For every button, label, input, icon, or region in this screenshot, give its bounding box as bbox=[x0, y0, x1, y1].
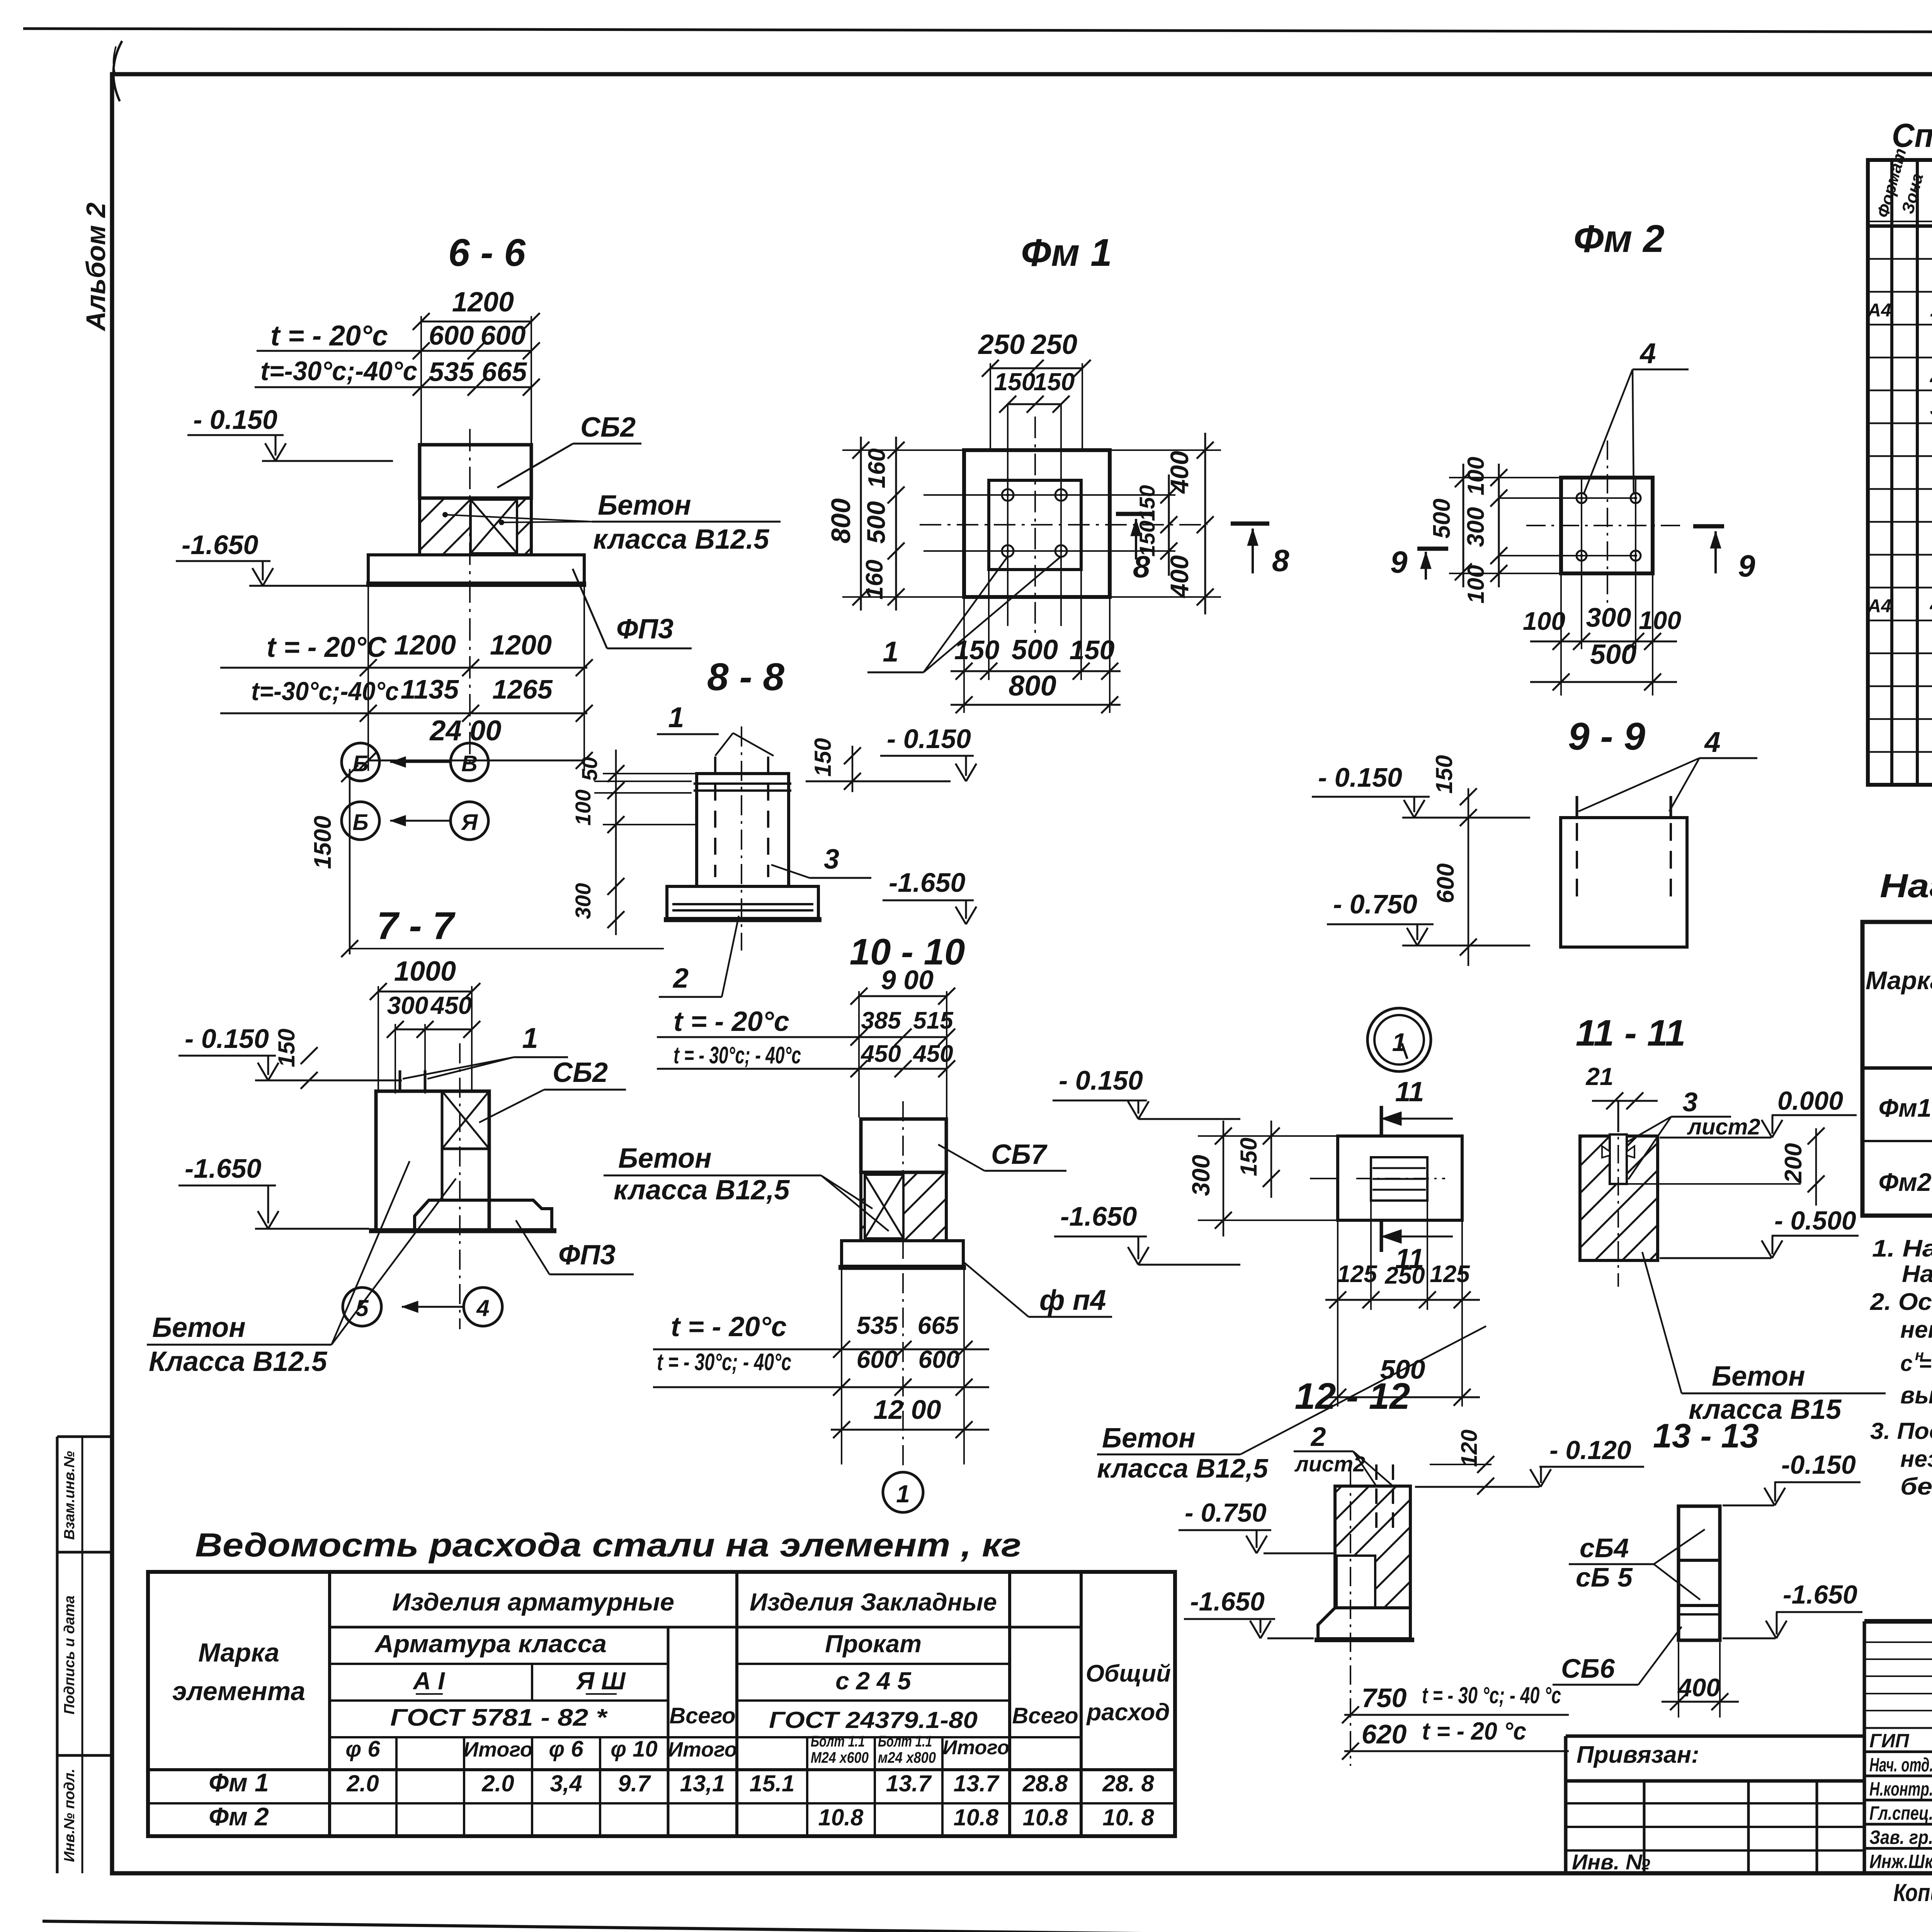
svg-text:Фм 1: Фм 1 bbox=[209, 1768, 269, 1797]
svg-text:ФП3: ФП3 bbox=[616, 614, 673, 645]
6-6 block SB2 bbox=[420, 445, 531, 498]
svg-text:А I: А I bbox=[412, 1667, 445, 1695]
svg-text:12 00: 12 00 bbox=[873, 1395, 941, 1425]
svg-text:Привязан:: Привязан: bbox=[1577, 1742, 1699, 1768]
svg-text:10.8: 10.8 bbox=[954, 1804, 999, 1830]
svg-text:1: 1 bbox=[896, 1480, 910, 1508]
svg-text:Гл.спец.: Гл.спец. bbox=[1869, 1803, 1932, 1824]
section cut 11 bottom bbox=[1380, 1221, 1383, 1252]
svg-text:Изделия арматурные: Изделия арматурные bbox=[392, 1588, 674, 1616]
svg-text:3: 3 bbox=[1930, 395, 1932, 420]
svg-text:4: 4 bbox=[1639, 337, 1656, 369]
7-7 axis circles 5 4 bbox=[343, 1287, 381, 1326]
top-left scan artifact curl bbox=[113, 41, 122, 101]
svg-text:Взам.инв.№: Взам.инв.№ bbox=[61, 1451, 78, 1540]
svg-text:160: 160 bbox=[864, 448, 890, 488]
svg-text:Фм1: Фм1 bbox=[1878, 1094, 1931, 1122]
svg-text:150: 150 bbox=[954, 635, 1000, 665]
title block outer bbox=[1564, 1736, 1568, 1873]
vedomost grid bbox=[148, 1572, 1175, 1836]
svg-text:Копировал: Коннова: Копировал: Коннова bbox=[1893, 1879, 1932, 1906]
svg-text:300: 300 bbox=[1187, 1155, 1215, 1196]
svg-text:9: 9 bbox=[1390, 545, 1408, 579]
6-6 hatched band with cross bbox=[420, 498, 531, 555]
svg-text:0.000: 0.000 bbox=[1777, 1086, 1843, 1116]
svg-text:250: 250 bbox=[1384, 1262, 1425, 1289]
svg-text:t=-30°c;-40°c: t=-30°c;-40°c bbox=[260, 356, 417, 386]
svg-text:100: 100 bbox=[1523, 607, 1565, 635]
svg-text:Бетон: Бетон bbox=[152, 1312, 246, 1343]
svg-text:3: 3 bbox=[1683, 1087, 1698, 1117]
svg-text:класса В12,5: класса В12,5 bbox=[614, 1175, 790, 1206]
svg-text:ГОСТ 24379.1-80: ГОСТ 24379.1-80 bbox=[769, 1707, 978, 1733]
svg-text:ФП3: ФП3 bbox=[558, 1240, 616, 1270]
svg-text:28.8: 28.8 bbox=[1022, 1770, 1068, 1796]
svg-text:1200: 1200 bbox=[394, 630, 456, 661]
svg-text:- 0.150: - 0.150 bbox=[193, 405, 277, 435]
svg-text:сБ 5: сБ 5 bbox=[1576, 1562, 1633, 1592]
svg-text:500: 500 bbox=[1012, 634, 1058, 665]
svg-text:9.7: 9.7 bbox=[618, 1770, 651, 1796]
svg-text:1. Нагрузка на фундамент: 1. Нагрузка на фундамент пилястры - 400 … bbox=[1872, 1235, 1932, 1262]
svg-text:t = - 30°c; - 40°c: t = - 30°c; - 40°c bbox=[673, 1042, 801, 1069]
left margin boxes bbox=[56, 1437, 59, 1873]
svg-text:сБ4: сБ4 bbox=[1580, 1533, 1629, 1563]
svg-text:t = - 30°c; - 40°c: t = - 30°c; - 40°c bbox=[657, 1349, 791, 1376]
7-7 footing trapezoid bbox=[415, 1200, 552, 1231]
svg-text:СБ6: СБ6 bbox=[1561, 1653, 1615, 1684]
svg-text:-1.650: -1.650 bbox=[1190, 1587, 1265, 1616]
svg-text:15.1: 15.1 bbox=[750, 1770, 795, 1796]
svg-text:- 0.150: - 0.150 bbox=[1318, 762, 1402, 793]
svg-text:750: 750 bbox=[1362, 1683, 1407, 1713]
svg-text:М24 х600: М24 х600 bbox=[811, 1749, 869, 1766]
svg-text:Нагрузка на ленточный фу: Нагрузка на ленточный фундамент - 99 к Н… bbox=[1902, 1261, 1932, 1287]
svg-text:Ведомость расхода стали: Ведомость расхода стали на элемент , кг bbox=[195, 1527, 1021, 1564]
svg-text:4: 4 bbox=[1930, 592, 1932, 617]
10-10 base slab bbox=[842, 1241, 963, 1266]
11-11 slot bbox=[1610, 1134, 1627, 1184]
svg-text:100: 100 bbox=[1639, 606, 1681, 634]
svg-text:Фм 2: Фм 2 bbox=[1573, 217, 1664, 260]
svg-text:Зав. гр.: Зав. гр. bbox=[1869, 1827, 1932, 1848]
svg-text:-1.650: -1.650 bbox=[889, 867, 966, 898]
9-9 body bbox=[1561, 818, 1687, 947]
svg-text:11 - 11: 11 - 11 bbox=[1576, 1012, 1686, 1054]
svg-text:2. Основанием фундаментов: 2. Основанием фундаментов служат грунты … bbox=[1870, 1289, 1932, 1315]
svg-text:ГИП: ГИП bbox=[1869, 1730, 1910, 1752]
7-7 center line bbox=[459, 1043, 461, 1329]
svg-text:лист2: лист2 bbox=[1687, 1114, 1760, 1139]
8-8 mesh lines top bbox=[694, 782, 791, 785]
strip plan grate bbox=[1371, 1157, 1427, 1201]
7-7 body bbox=[376, 1091, 489, 1231]
svg-text:В: В bbox=[461, 751, 478, 776]
svg-text:600: 600 bbox=[918, 1345, 960, 1373]
svg-text:класса В12.5: класса В12.5 bbox=[593, 524, 769, 555]
svg-text:150: 150 bbox=[274, 1029, 299, 1067]
svg-text:Бетон: Бетон bbox=[618, 1143, 712, 1174]
Fm2 center lines bbox=[1607, 440, 1608, 607]
6-6 axis circles B A bbox=[342, 802, 379, 840]
svg-text:3,4: 3,4 bbox=[550, 1770, 582, 1796]
svg-text:8: 8 bbox=[1272, 543, 1289, 578]
svg-text:Инв.№ подл.: Инв.№ подл. bbox=[61, 1769, 78, 1862]
Fm2 square bbox=[1561, 478, 1653, 573]
svg-text:2.0: 2.0 bbox=[346, 1770, 379, 1796]
8-8 base bbox=[667, 886, 818, 918]
10-10 axis circle 1 bbox=[883, 1472, 923, 1512]
svg-text:600: 600 bbox=[429, 320, 474, 350]
8-8 bolts dashed bbox=[714, 757, 716, 877]
svg-text:φ 6: φ 6 bbox=[345, 1736, 380, 1762]
Fm1 bolt axis lines bbox=[1008, 494, 1175, 496]
svg-text:100: 100 bbox=[1463, 565, 1489, 604]
paper top edge line bbox=[23, 29, 1932, 33]
svg-text:ГОСТ 5781 - 82 *: ГОСТ 5781 - 82 * bbox=[390, 1704, 608, 1731]
13-13 column bbox=[1679, 1506, 1720, 1640]
10-10 hatched band bbox=[861, 1172, 946, 1241]
svg-text:2.0: 2.0 bbox=[481, 1770, 514, 1796]
svg-text:Итого: Итого bbox=[463, 1738, 533, 1761]
Fm2 bolt axis lines bbox=[1499, 497, 1636, 499]
10-10 top block SB7 bbox=[861, 1119, 946, 1172]
12-12 bolts bbox=[1375, 1464, 1378, 1530]
svg-text:- 0.750: - 0.750 bbox=[1185, 1498, 1267, 1527]
svg-text:1265: 1265 bbox=[492, 674, 553, 704]
svg-text:535: 535 bbox=[429, 357, 474, 387]
svg-text:10.8: 10.8 bbox=[1023, 1804, 1068, 1830]
svg-text:10.8: 10.8 bbox=[818, 1804, 864, 1830]
12-12 slot white bbox=[1337, 1556, 1375, 1608]
7-7 inner pier with cross bbox=[442, 1091, 489, 1149]
svg-text:665: 665 bbox=[482, 357, 527, 387]
svg-text:Болт 1.1: Болт 1.1 bbox=[878, 1733, 932, 1750]
svg-text:1: 1 bbox=[522, 1022, 538, 1054]
svg-text:Арматура класса: Арматура класса bbox=[374, 1630, 607, 1658]
9-9 bolts bbox=[1576, 796, 1578, 818]
svg-text:3: 3 bbox=[824, 844, 839, 875]
svg-text:t = - 20°c: t = - 20°c bbox=[671, 1311, 787, 1342]
svg-text:300: 300 bbox=[1586, 602, 1631, 633]
svg-text:Я Ш: Я Ш bbox=[575, 1667, 626, 1695]
svg-text:Бетон: Бетон bbox=[1712, 1361, 1805, 1392]
svg-text:150: 150 bbox=[994, 368, 1036, 396]
svg-text:1000: 1000 bbox=[394, 956, 456, 987]
svg-text:450: 450 bbox=[860, 1041, 901, 1067]
svg-text:9: 9 bbox=[1738, 549, 1755, 583]
svg-text:150: 150 bbox=[1431, 755, 1457, 794]
svg-text:2: 2 bbox=[1930, 362, 1932, 387]
svg-text:φ 10: φ 10 bbox=[611, 1736, 657, 1762]
svg-text:120: 120 bbox=[1457, 1430, 1482, 1467]
svg-text:А4: А4 bbox=[1867, 596, 1891, 617]
strip plan rect bbox=[1338, 1136, 1462, 1220]
svg-text:28. 8: 28. 8 bbox=[1102, 1770, 1154, 1796]
svg-text:600: 600 bbox=[481, 320, 526, 350]
Fm1 bolts bbox=[1002, 489, 1014, 501]
Fm2 section mark 9 right bbox=[1693, 524, 1724, 529]
svg-text:600: 600 bbox=[857, 1345, 898, 1373]
Fm1 section mark 8 left bbox=[1116, 512, 1155, 516]
svg-text:5: 5 bbox=[355, 1295, 369, 1321]
6-6 center line bbox=[469, 429, 471, 771]
svg-text:450: 450 bbox=[912, 1041, 953, 1067]
svg-text:расход: расход bbox=[1086, 1699, 1170, 1726]
section cut 11 top bbox=[1380, 1106, 1383, 1136]
svg-text:Бетон: Бетон bbox=[1102, 1423, 1196, 1454]
svg-text:φ 6: φ 6 bbox=[549, 1736, 583, 1762]
svg-text:Бетон: Бетон bbox=[598, 490, 691, 521]
svg-text:СБ2: СБ2 bbox=[553, 1057, 608, 1088]
svg-text:500: 500 bbox=[1429, 498, 1455, 538]
svg-text:150: 150 bbox=[1034, 368, 1075, 396]
svg-text:450: 450 bbox=[430, 992, 472, 1019]
svg-text:Всего: Всего bbox=[669, 1703, 735, 1728]
svg-text:4: 4 bbox=[476, 1295, 489, 1321]
svg-text:500: 500 bbox=[862, 501, 890, 544]
svg-text:Итого: Итого bbox=[668, 1738, 737, 1761]
svg-text:бетона класса В 3.5 толщ: бетона класса В 3.5 толщиной 100 мм. bbox=[1900, 1473, 1932, 1500]
svg-text:t=-30°c;-40°c: t=-30°c;-40°c bbox=[251, 677, 399, 706]
svg-text:100: 100 bbox=[571, 789, 595, 825]
privyazan mini table bbox=[1566, 1802, 1864, 1804]
svg-text:11: 11 bbox=[1395, 1077, 1424, 1107]
Fm1 inner square bbox=[989, 480, 1081, 570]
svg-text:- 0.150: - 0.150 bbox=[887, 724, 971, 754]
svg-text:300: 300 bbox=[387, 992, 429, 1019]
svg-text:665: 665 bbox=[918, 1311, 959, 1339]
svg-text:t = - 20°c: t = - 20°c bbox=[270, 320, 388, 352]
svg-text:1: 1 bbox=[883, 636, 898, 668]
svg-text:515: 515 bbox=[913, 1007, 954, 1034]
Fm1 center lines bbox=[1034, 417, 1036, 634]
svg-text:Всего: Всего bbox=[1012, 1703, 1078, 1728]
svg-text:Я: Я bbox=[461, 810, 478, 835]
svg-text:-1.650: -1.650 bbox=[1060, 1201, 1137, 1231]
svg-text:м24 х800: м24 х800 bbox=[878, 1749, 936, 1766]
svg-text:элемента: элемента bbox=[172, 1677, 305, 1706]
svg-text:Класса В12.5: Класса В12.5 bbox=[149, 1346, 327, 1377]
svg-text:250: 250 bbox=[978, 329, 1025, 360]
svg-text:300: 300 bbox=[1463, 507, 1489, 547]
svg-text:t = - 30 °c; - 40 °c: t = - 30 °c; - 40 °c bbox=[1422, 1682, 1561, 1708]
svg-text:800: 800 bbox=[826, 498, 856, 544]
svg-text:лист2: лист2 bbox=[1294, 1452, 1365, 1476]
svg-text:200: 200 bbox=[1780, 1143, 1807, 1183]
svg-text:- 0.150: - 0.150 bbox=[1059, 1065, 1143, 1095]
svg-text:50: 50 bbox=[577, 757, 602, 781]
svg-text:ф п4: ф п4 bbox=[1039, 1284, 1106, 1316]
svg-text:- 0.500: - 0.500 bbox=[1774, 1206, 1856, 1235]
svg-text:400: 400 bbox=[1165, 451, 1194, 494]
svg-text:Итого: Итого bbox=[943, 1736, 1010, 1759]
svg-text:t = - 20°c: t = - 20°c bbox=[673, 1006, 789, 1037]
loads table grid bbox=[1862, 922, 1932, 1216]
svg-text:250: 250 bbox=[1030, 329, 1077, 360]
svg-text:Подпись и дата: Подпись и дата bbox=[61, 1595, 78, 1714]
svg-text:Прокат: Прокат bbox=[825, 1630, 922, 1658]
8-8 stem bbox=[697, 774, 789, 886]
svg-text:100: 100 bbox=[1463, 457, 1489, 495]
svg-text:3. Под сборными фундаментам: 3. Под сборными фундаментами выполнить п… bbox=[1870, 1418, 1932, 1444]
svg-text:Н.контр.: Н.контр. bbox=[1869, 1778, 1932, 1800]
svg-text:вые воды отсутствуют.: вые воды отсутствуют. bbox=[1900, 1382, 1932, 1409]
11-11 hatched body bbox=[1580, 1136, 1658, 1260]
6-6 slab FP3 bbox=[368, 555, 584, 583]
svg-text:Марка: Марка bbox=[198, 1638, 279, 1667]
svg-text:620: 620 bbox=[1362, 1719, 1407, 1749]
svg-text:Нагрузки на фундаменты: Нагрузки на фундаменты на отм. - 0.150 bbox=[1880, 867, 1932, 905]
8-8 base mesh bbox=[672, 903, 813, 905]
svg-text:Общий: Общий bbox=[1086, 1660, 1171, 1687]
svg-text:1: 1 bbox=[1930, 296, 1932, 321]
6-6 axis circles B V bbox=[342, 743, 379, 781]
svg-text:13.7: 13.7 bbox=[954, 1770, 1000, 1796]
svg-text:125: 125 bbox=[1430, 1261, 1470, 1287]
7-7 bolts bbox=[399, 1070, 401, 1091]
staff table bbox=[1863, 1621, 1866, 1873]
svg-text:- 0.120: - 0.120 bbox=[1549, 1435, 1631, 1465]
8-8 center line bbox=[741, 726, 742, 951]
svg-text:1500: 1500 bbox=[310, 816, 336, 869]
svg-text:13,1: 13,1 bbox=[680, 1770, 725, 1796]
svg-text:Фм2: Фм2 bbox=[1878, 1168, 1931, 1196]
svg-text:1: 1 bbox=[668, 701, 684, 733]
svg-text:300: 300 bbox=[571, 883, 595, 919]
svg-text:150: 150 bbox=[810, 738, 836, 777]
paper bottom edge line bbox=[43, 1921, 1932, 1932]
svg-text:6 - 6: 6 - 6 bbox=[448, 231, 526, 274]
svg-text:н: н bbox=[1915, 1347, 1924, 1364]
Fm2 bolts bbox=[1577, 493, 1587, 503]
svg-text:1135: 1135 bbox=[401, 674, 459, 704]
svg-text:Альбом 2: Альбом 2 bbox=[81, 202, 111, 332]
svg-text:21: 21 bbox=[1585, 1063, 1613, 1090]
svg-text:1200: 1200 bbox=[452, 287, 514, 318]
svg-text:535: 535 bbox=[857, 1311, 898, 1339]
svg-text:-1.650: -1.650 bbox=[185, 1153, 262, 1184]
svg-text:150: 150 bbox=[1236, 1138, 1262, 1176]
svg-text:-1.650: -1.650 bbox=[182, 530, 259, 560]
svg-text:СБ2: СБ2 bbox=[580, 412, 636, 443]
svg-text:150: 150 bbox=[1070, 635, 1115, 665]
svg-text:с 2 4 5: с 2 4 5 bbox=[835, 1667, 912, 1695]
svg-text:Фм 1: Фм 1 bbox=[1021, 231, 1112, 274]
svg-text:Марка: Марка bbox=[1866, 966, 1932, 995]
svg-text:2: 2 bbox=[1310, 1422, 1326, 1452]
svg-text:- 0.150: - 0.150 bbox=[185, 1024, 269, 1054]
strip plan center line bbox=[1310, 1178, 1338, 1179]
svg-text:800: 800 bbox=[1009, 670, 1056, 702]
svg-text:Инж.Шк: Инж.Шк bbox=[1869, 1851, 1932, 1872]
svg-text:9 - 9: 9 - 9 bbox=[1568, 715, 1645, 758]
svg-text:8 - 8: 8 - 8 bbox=[707, 655, 784, 699]
svg-text:t = - 20 °c: t = - 20 °c bbox=[1422, 1717, 1526, 1745]
svg-text:10. 8: 10. 8 bbox=[1102, 1804, 1154, 1830]
svg-text:СБ7: СБ7 bbox=[991, 1139, 1048, 1170]
svg-text:непросадочные со следующими: непросадочные со следующими характеристи… bbox=[1900, 1316, 1932, 1343]
12-12 footing bbox=[1318, 1608, 1410, 1639]
svg-text:7 - 7: 7 - 7 bbox=[377, 904, 456, 947]
10-10 center line bbox=[902, 1101, 904, 1466]
svg-text:13.7: 13.7 bbox=[886, 1770, 932, 1796]
svg-text:незирнистого песка толщиной: незирнистого песка толщиной 100 мм , под… bbox=[1900, 1446, 1932, 1472]
svg-text:-0.150: -0.150 bbox=[1781, 1450, 1856, 1480]
11-11 center line bbox=[1617, 1113, 1619, 1287]
svg-text:Нач. отд.: Нач. отд. bbox=[1869, 1754, 1932, 1776]
svg-text:500: 500 bbox=[1590, 639, 1636, 670]
svg-text:класса В12,5: класса В12,5 bbox=[1097, 1453, 1269, 1483]
detail mark double circle 1 bbox=[1367, 1008, 1431, 1071]
svg-text:-1.650: -1.650 bbox=[1783, 1580, 1857, 1609]
svg-text:1200: 1200 bbox=[490, 630, 552, 661]
Fm1 outer square bbox=[964, 450, 1110, 597]
svg-text:А4: А4 bbox=[1867, 300, 1891, 321]
svg-text:13 - 13: 13 - 13 bbox=[1653, 1417, 1759, 1455]
svg-text:9 00: 9 00 bbox=[881, 965, 934, 995]
svg-text:600: 600 bbox=[1432, 863, 1459, 903]
svg-text:Фм 2: Фм 2 bbox=[209, 1802, 269, 1831]
svg-text:24 00: 24 00 bbox=[429, 714, 501, 747]
12-12 center line bbox=[1350, 1468, 1351, 1766]
svg-text:Инв. №: Инв. № bbox=[1572, 1850, 1650, 1874]
svg-text:Б: Б bbox=[352, 810, 368, 835]
svg-text:4: 4 bbox=[1704, 726, 1720, 758]
svg-text:- 0.750: - 0.750 bbox=[1333, 889, 1417, 919]
12-12 hatched body bbox=[1335, 1486, 1410, 1608]
svg-text:2: 2 bbox=[672, 963, 689, 994]
svg-text:400: 400 bbox=[1165, 555, 1194, 599]
spec table grid bbox=[1868, 160, 1932, 785]
svg-text:Б: Б bbox=[352, 751, 368, 776]
Fm1 section mark 8 right bbox=[1231, 522, 1269, 526]
svg-text:Болт 1.1: Болт 1.1 bbox=[811, 1733, 865, 1750]
svg-text:Изделия Закладные: Изделия Закладные bbox=[750, 1588, 997, 1616]
